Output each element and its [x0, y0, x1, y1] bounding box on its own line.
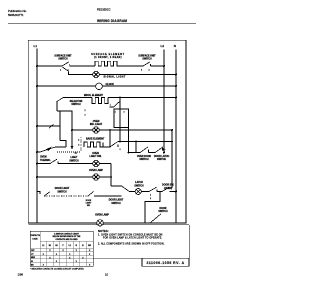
svg-text:2: 2 [78, 140, 79, 142]
switch S1 surface unit switch left [60, 62, 70, 72]
svg-text:3: 3 [85, 115, 86, 117]
wire N bus [175, 50, 177, 224]
right margin line [188, 225, 190, 258]
svg-text:SURFACE UNIT: SURFACE UNIT [54, 54, 72, 57]
svg-text:BROIL ELEMENT: BROIL ELEMENT [84, 95, 104, 97]
part number box [93, 258, 142, 260]
svg-text:1: 1 [115, 112, 116, 114]
svg-text:SIGNAL LIGHT: SIGNAL LIGHT [104, 75, 126, 78]
svg-text:DOOR LATCH: DOOR LATCH [154, 155, 170, 158]
svg-text:LIGHT: LIGHT [86, 203, 92, 205]
svg-text:LIGHT: LIGHT [71, 157, 79, 159]
node junction L2 row1 [163, 65, 165, 67]
svg-text:SWITCH: SWITCH [139, 159, 149, 161]
switch latch row 2 [161, 187, 169, 192]
node junction N row4 [175, 97, 177, 99]
svg-text:SW.: SW. [87, 205, 91, 207]
svg-text:FES355CC: FES355CC [97, 8, 111, 12]
wire row3 left [37, 85, 96, 87]
svg-text:OVEN: OVEN [93, 121, 100, 123]
switch broil thermostat contact [110, 102, 120, 107]
wire row1 mid [70, 65, 95, 67]
motor clock [96, 83, 103, 90]
svg-text:N: N [174, 44, 176, 48]
node selector contacts [62, 110, 64, 112]
svg-text:SWITCH: SWITCH [158, 211, 168, 213]
bottom section rule [28, 224, 189, 226]
svg-text:SWITCH: SWITCH [69, 160, 79, 162]
node junction L1 row7 [36, 163, 38, 165]
svg-text:SWITCH: SWITCH [58, 59, 68, 61]
svg-text:2: 2 [150, 198, 151, 200]
wire row1 right [120, 65, 143, 67]
wire bake row mid [103, 146, 110, 148]
svg-text:5995202771: 5995202771 [8, 13, 24, 17]
svg-text:OVEN DOOR: OVEN DOOR [137, 156, 152, 158]
svg-text:1/98: 1/98 [18, 272, 24, 276]
switch shelf blade [122, 186, 129, 191]
svg-text:CONTACTS ARE CLOSED: CONTACTS ARE CLOSED [55, 238, 78, 241]
wire right drop x172 [171, 130, 173, 188]
wire row1 to L2 [151, 65, 164, 67]
svg-text:L2: L2 [161, 44, 165, 48]
wire corner to thermostat [60, 141, 66, 148]
switch oven light switch [49, 159, 63, 164]
svg-text:4: 4 [149, 68, 150, 71]
lamp oven light [93, 160, 99, 166]
wire bake lower line [128, 152, 140, 154]
svg-text:* INDICATES CONTACTS CLOSED (C: * INDICATES CONTACTS CLOSED (CIRCUIT COM… [30, 268, 84, 271]
svg-text:(OVEN): (OVEN) [164, 188, 172, 190]
switch row9 mid [88, 192, 122, 197]
wire shelf y186 [111, 185, 122, 187]
node junction N latch [175, 191, 177, 193]
svg-text:H1: H1 [49, 245, 51, 247]
svg-text:MED: MED [31, 257, 36, 259]
node junction N row3 [175, 85, 177, 87]
table switch chart [30, 231, 93, 266]
wire row5 drop [109, 130, 111, 147]
wire row3 to N [102, 85, 176, 87]
table header text [30, 232, 92, 247]
svg-text:DOOR: DOOR [160, 208, 167, 210]
svg-text:1: 1 [150, 194, 151, 196]
svg-text:1: 1 [110, 105, 111, 107]
svg-text:THERMO.: THERMO. [40, 160, 51, 162]
svg-text:2: 2 [120, 149, 121, 151]
switch door left [44, 192, 50, 196]
wire row8 left [37, 176, 93, 178]
wire lamp join vertical [110, 164, 112, 187]
svg-text:SWITCH: SWITCH [142, 59, 152, 61]
lamp oven indicator light [93, 127, 99, 133]
wire broil drop vertical [119, 98, 121, 142]
wire bake lower mid [149, 152, 156, 154]
wire row7 left [37, 163, 50, 165]
svg-text:DOOR SW.: DOOR SW. [162, 185, 174, 187]
node junction x136 upper [135, 141, 137, 143]
svg-text:2: 2 [85, 110, 86, 112]
svg-text:SELECTOR: SELECTOR [70, 101, 83, 103]
wire row1 left [37, 65, 62, 67]
svg-text:SURFACE ELEMENT: SURFACE ELEMENT [91, 53, 124, 56]
svg-text:SWITCH: SWITCH [71, 104, 81, 106]
wire bake upper line [118, 141, 173, 143]
svg-text:L2: L2 [69, 245, 71, 247]
node junction L1 row1 [36, 65, 38, 67]
switch selector switch pole 1 [56, 98, 63, 111]
node junction L2 bake [163, 152, 165, 154]
switch bake contact [109, 142, 120, 151]
wire latch row left [129, 191, 135, 193]
svg-text:SWITCH: SWITCH [134, 185, 144, 187]
switch bottom right door [151, 214, 162, 223]
node junction L1 row8 [36, 176, 38, 178]
svg-text:DOOR LIGHT: DOOR LIGHT [55, 188, 70, 190]
wire latch row to N [170, 191, 177, 193]
wire selector vertical [59, 111, 61, 141]
wire row4 to N [108, 97, 176, 99]
svg-text:1. OVEN LIGHT SWITCH ON CONSOL: 1. OVEN LIGHT SWITCH ON CONSOLE MUST BE … [98, 234, 163, 236]
node junction L1 row3 [36, 85, 38, 87]
svg-text:3: 3 [141, 69, 142, 71]
table X marks [43, 250, 91, 266]
node junction broil drop [119, 97, 121, 99]
wire row2 to N [99, 74, 176, 76]
svg-text:OVEN: OVEN [40, 157, 47, 159]
svg-text:CONTACTS: CONTACTS [30, 234, 41, 237]
svg-text:2. ALL COMPONENTS ARE SHOWN IN: 2. ALL COMPONENTS ARE SHOWN IN OFF POSIT… [98, 242, 165, 245]
svg-text:WIRING DIAGRAM: WIRING DIAGRAM [97, 19, 127, 23]
wire row7 [58, 163, 93, 165]
wire box bottom drop [128, 128, 130, 153]
switch S2 surface unit switch right [141, 62, 151, 72]
wire L2 bus [163, 50, 165, 153]
wire row9 dotted [44, 195, 88, 197]
heater broil element [92, 98, 108, 104]
node junctions row5 [109, 129, 111, 131]
wire latch row mid [157, 191, 162, 193]
svg-text:LIGHT SW.: LIGHT SW. [90, 156, 102, 158]
svg-text:2: 2 [68, 69, 69, 71]
svg-text:10: 10 [105, 272, 109, 276]
svg-text:2: 2 [124, 112, 125, 114]
switch door latch [154, 147, 165, 153]
lamp oven lamp upper [93, 174, 99, 180]
switch oven door gate [139, 147, 148, 153]
svg-text:L1: L1 [34, 44, 38, 48]
wire drop to bottom [145, 192, 160, 223]
node junction N row2 [175, 74, 177, 76]
switch latch row 1 [148, 187, 157, 192]
svg-text:SURFACE UNIT: SURFACE UNIT [138, 54, 156, 57]
schematic frame [28, 40, 186, 223]
svg-text:SWITCH: SWITCH [111, 203, 121, 205]
node junction row5 left [71, 129, 73, 131]
wire row8 right [99, 176, 111, 178]
wire selector down feed with arrow [71, 111, 78, 154]
wire row5 left [72, 129, 93, 131]
svg-text:(1 FRONT, 1 REAR): (1 FRONT, 1 REAR) [94, 56, 122, 59]
svg-text:OVEN LAMP: OVEN LAMP [95, 214, 109, 217]
wire x136 drop [135, 142, 137, 153]
svg-text:BAKE ELEMENT: BAKE ELEMENT [86, 138, 105, 141]
svg-text:DOOR LIGHT: DOOR LIGHT [109, 200, 124, 202]
node junction x121 upper [119, 141, 121, 143]
svg-text:A SWITCH CONTACT CHART: A SWITCH CONTACT CHART [54, 232, 80, 235]
terminal marks bake left [78, 138, 81, 152]
lamp signal light [93, 71, 99, 77]
svg-text:FOR OVEN LAMP & LATCH LIGHT TO: FOR OVEN LAMP & LATCH LIGHT TO OPERATE. [103, 237, 162, 240]
svg-text:H2: H2 [55, 245, 57, 247]
svg-text:DOOR: DOOR [86, 200, 92, 202]
wire L1 bus [36, 49, 38, 224]
switch oven thermostat [36, 147, 80, 153]
lamp oven lamp bottom [97, 220, 103, 226]
table row labels [31, 250, 36, 266]
wire row2 drop from switch [69, 71, 93, 74]
wire row5 to L2 [99, 129, 172, 131]
svg-text:3: 3 [78, 145, 79, 147]
wire selector pole2 bar [57, 110, 73, 112]
svg-text:SWITCH: SWITCH [57, 191, 67, 193]
svg-text:OVEN: OVEN [92, 153, 99, 155]
heater bake element [84, 142, 103, 147]
wire selector feed from L1 [36, 124, 60, 128]
wire row9 left bracket [38, 192, 41, 195]
svg-text:IND. LIGHT: IND. LIGHT [90, 124, 103, 126]
svg-text:L1: L1 [42, 245, 44, 247]
wire latch row [141, 191, 149, 193]
svg-text:NOTES:: NOTES: [98, 229, 109, 233]
svg-text:1: 1 [60, 69, 61, 71]
header rule [8, 22, 196, 24]
svg-text:BELOW SHOWS WHICH OF THE: BELOW SHOWS WHICH OF THE [53, 236, 81, 238]
wire row4 [63, 97, 92, 99]
svg-text:LATCH: LATCH [135, 181, 143, 184]
lamp latch light [135, 189, 141, 195]
wire bake lower to L2 [163, 152, 164, 154]
wire row7 right [99, 163, 111, 165]
svg-text:OVEN LAMP: OVEN LAMP [89, 169, 103, 172]
relay oven control box [114, 109, 129, 128]
svg-text:CODE: CODE [32, 239, 38, 241]
heater surface element [95, 61, 120, 66]
notes [98, 229, 165, 246]
svg-text:SWITCH: SWITCH [157, 159, 167, 161]
svg-text:311096-1056 RV- A: 311096-1056 RV- A [146, 261, 184, 265]
